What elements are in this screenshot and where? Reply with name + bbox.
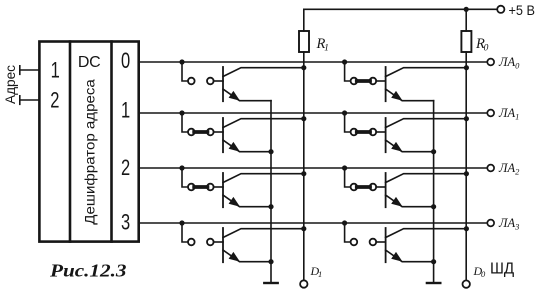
svg-text:D1: D1 (310, 264, 323, 279)
svg-text:1: 1 (121, 98, 130, 123)
transistor VT2 emitter arrowhead (229, 142, 240, 152)
svg-text:2: 2 (121, 156, 130, 181)
wire: rail to R0 (465, 9, 467, 31)
svg-text:ЛА2: ЛА2 (498, 161, 520, 177)
junction: VT1 collector on D1 column (301, 65, 306, 70)
wire: row 2 line from decoder output to LA2 terminal (139, 167, 488, 169)
wire: rail to R1 (303, 9, 305, 31)
wire: link drop row 2 (D0) (345, 168, 351, 187)
junction: row 2 to link drop (D0 column) (342, 165, 347, 170)
jumper link S5 closed bar (357, 79, 370, 83)
terminal +5V (497, 6, 504, 13)
jumper link S6 right contact (370, 129, 377, 136)
transistor VT4 emitter (223, 250, 271, 262)
ground (right) (427, 282, 440, 284)
transistor VT5 emitter (386, 89, 434, 101)
junction: VT3 emitter on ground column (268, 204, 273, 209)
transistor VT3 emitter arrowhead (229, 197, 240, 207)
transistor VT7 emitter (386, 195, 434, 207)
wire: +5V rail (304, 8, 497, 10)
svg-text:R0: R0 (475, 36, 489, 54)
resistor R1 (299, 31, 309, 52)
svg-text:Рис.12.3: Рис.12.3 (49, 261, 127, 281)
wire: link to base of VT1 (214, 80, 224, 82)
svg-text:3: 3 (121, 210, 130, 235)
jumper link open S1 left contact (188, 78, 195, 85)
junction: VT2 emitter on ground column (268, 149, 273, 154)
terminal LA2 (487, 165, 494, 172)
transistor VT8 collector to D0 column (386, 229, 467, 238)
wire: row 3 line from decoder output to LA3 terminal (139, 222, 488, 224)
wire: link drop row 0 (D0) (345, 62, 351, 81)
transistor VT2 collector to D1 column (223, 119, 304, 128)
tick: input 2 terminal (19, 96, 21, 105)
wire: link drop row 1 (D1) (182, 113, 188, 132)
jumper link S6 closed bar (357, 130, 370, 134)
transistor VT3 collector to D1 column (223, 174, 304, 183)
wire: link to base of VT4 (214, 241, 224, 243)
jumper link closed S3 left contact (188, 184, 195, 191)
terminal LA1 (487, 110, 494, 117)
svg-text:ЛА0: ЛА0 (498, 55, 520, 71)
jumper link S2 closed bar (194, 130, 207, 134)
svg-text:Дешифратор адреса: Дешифратор адреса (81, 79, 97, 225)
transistor VT5 emitter arrowhead (391, 91, 402, 101)
junction: VT2 collector on D1 column (301, 116, 306, 121)
transistor VT2 base bar (222, 118, 224, 152)
svg-text:ШД: ШД (490, 260, 515, 277)
transistor VT6 collector to D0 column (386, 119, 467, 128)
svg-text:D0: D0 (473, 264, 486, 279)
transistor VT4 collector to D1 column (223, 229, 304, 238)
svg-text:Адрес: Адрес (2, 65, 18, 104)
wire: row 1 line from decoder output to LA1 terminal (139, 112, 488, 114)
jumper link S7 closed bar (357, 185, 370, 189)
junction: VT8 emitter on ground column (431, 259, 436, 264)
terminal LA0 (487, 59, 494, 66)
jumper link open S4 left contact (188, 239, 195, 246)
transistor VT6 emitter (386, 140, 434, 152)
transistor VT2 emitter (223, 140, 271, 152)
svg-text:ЛА3: ЛА3 (498, 216, 519, 232)
junction: R0 column to +5V rail (464, 7, 469, 12)
wire: link to base of VT8 (376, 241, 386, 243)
svg-text:2: 2 (50, 88, 59, 113)
decoder U1 (DC) outer box (39, 42, 138, 242)
jumper link S5 right contact (370, 78, 377, 85)
svg-text:DC: DC (78, 54, 101, 71)
junction: VT4 emitter on ground column (268, 259, 273, 264)
junction: VT3 collector on D1 column (301, 171, 306, 176)
jumper link S4 right contact (207, 239, 214, 246)
junction: VT5 collector on D0 column (464, 65, 469, 70)
wire: right emitter column to ground (433, 101, 435, 283)
junction: VT4 collector on D1 column (301, 226, 306, 231)
svg-text:0: 0 (121, 49, 130, 74)
transistor VT5 base bar (385, 67, 387, 101)
transistor VT4 base bar (222, 228, 224, 262)
terminal D0 (463, 280, 470, 287)
transistor VT1 emitter (223, 89, 271, 101)
jumper link closed S5 left contact (351, 78, 358, 85)
jumper link closed S7 left contact (351, 184, 358, 191)
svg-text:R1: R1 (316, 36, 329, 54)
transistor VT7 emitter arrowhead (391, 197, 402, 207)
junction: row 3 to link drop (D0 column) (342, 220, 347, 225)
transistor VT6 base bar (385, 118, 387, 152)
wire: link to base of VT6 (376, 131, 386, 133)
resistor R0 (461, 31, 471, 52)
jumper link S8 right contact (370, 239, 377, 246)
transistor VT1 emitter arrowhead (229, 91, 240, 101)
wire: link to base of VT3 (214, 186, 224, 188)
transistor VT3 base bar (222, 173, 224, 207)
svg-text:ЛА1: ЛА1 (498, 106, 519, 122)
wire: link drop row 3 (D0) (345, 223, 351, 242)
jumper link S2 right contact (207, 129, 214, 136)
junction: VT6 emitter on ground column (431, 149, 436, 154)
transistor VT8 emitter arrowhead (391, 252, 402, 262)
transistor VT8 base bar (385, 228, 387, 262)
junction: VT7 emitter on ground column (431, 204, 436, 209)
transistor VT8 emitter (386, 250, 434, 262)
jumper link S3 closed bar (194, 185, 207, 189)
decoder internal divider right (110, 42, 113, 242)
junction: row 0 to link drop (D0 column) (342, 59, 347, 64)
wire: left emitter column to ground (270, 101, 272, 283)
junction: row 3 to link drop (D1 column) (179, 220, 184, 225)
transistor VT3 emitter (223, 195, 271, 207)
terminal D1 (300, 280, 307, 287)
wire: link drop row 1 (D0) (345, 113, 351, 132)
junction: row 1 to link drop (D0 column) (342, 110, 347, 115)
wire: link drop row 0 (D1) (182, 62, 188, 81)
jumper link closed S6 left contact (351, 129, 358, 136)
transistor VT1 base bar (222, 67, 224, 101)
jumper link S7 right contact (370, 184, 377, 191)
decoder internal divider left (69, 42, 72, 242)
ground (left) (264, 282, 277, 284)
wire: R1 to D1 column (303, 52, 305, 280)
jumper link closed S2 left contact (188, 129, 195, 136)
jumper link S1 right contact (207, 78, 214, 85)
transistor VT5 collector to D0 column (386, 68, 467, 77)
transistor VT7 base bar (385, 173, 387, 207)
tick: input 1 terminal (19, 66, 21, 75)
svg-text:+5 В: +5 В (509, 2, 536, 18)
jumper link open S8 left contact (351, 239, 358, 246)
transistor VT6 emitter arrowhead (391, 142, 402, 152)
junction: VT6 collector on D0 column (464, 116, 469, 121)
transistor VT1 collector to D1 column (223, 68, 304, 77)
wire: address input 1 (20, 69, 39, 71)
junction: row 2 to link drop (D1 column) (179, 165, 184, 170)
svg-text:1: 1 (51, 58, 60, 83)
wire: link to base of VT5 (376, 80, 386, 82)
wire: row 0 line from decoder output to LA0 terminal (139, 61, 488, 63)
wire: link to base of VT7 (376, 186, 386, 188)
terminal LA3 (487, 220, 494, 227)
wire: R0 to D0 column (465, 52, 467, 280)
jumper link S3 right contact (207, 184, 214, 191)
junction: VT8 collector on D0 column (464, 226, 469, 231)
junction: row 0 to link drop (D1 column) (179, 59, 184, 64)
wire: address input 2 (20, 99, 39, 101)
transistor VT7 collector to D0 column (386, 174, 467, 183)
wire: link drop row 2 (D1) (182, 168, 188, 187)
wire: link to base of VT2 (214, 131, 224, 133)
junction: row 1 to link drop (D1 column) (179, 110, 184, 115)
junction: VT7 collector on D0 column (464, 171, 469, 176)
transistor VT4 emitter arrowhead (229, 252, 240, 262)
wire: link drop row 3 (D1) (182, 223, 188, 242)
